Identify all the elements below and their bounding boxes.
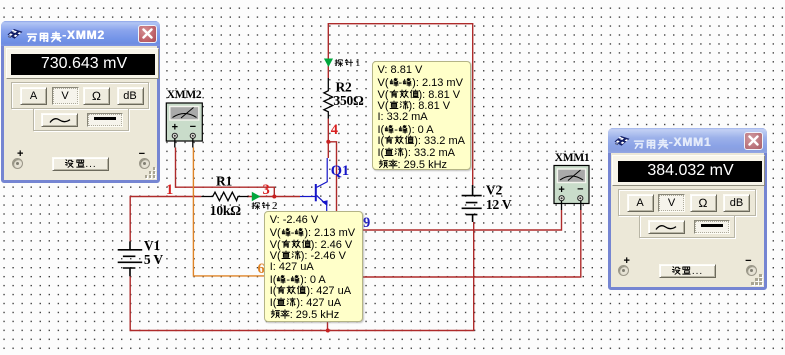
- svg-text:−: −: [190, 121, 196, 133]
- probe tooltip probe1: [372, 61, 471, 170]
- wire: node4 to XMM1 plus (node 9 run): [328, 142, 561, 230]
- svg-text:10kΩ: 10kΩ: [210, 203, 241, 218]
- transistor Q1: [300, 158, 327, 211]
- svg-text:12 V: 12 V: [486, 197, 512, 212]
- wire: node3 to Q1 base: [247, 196, 300, 198]
- svg-text:4: 4: [331, 122, 338, 138]
- svg-text:3: 3: [263, 182, 270, 198]
- resistor R1: [201, 192, 248, 201]
- probe label tan-zhen-2: [251, 200, 278, 213]
- svg-text:5 V: 5 V: [144, 252, 163, 267]
- probe label tan-zhen-1: [334, 57, 361, 70]
- wire: XMM2 plus down to node1 jog to node3: [176, 148, 275, 197]
- svg-text:R1: R1: [216, 174, 233, 189]
- svg-text:1: 1: [166, 182, 173, 198]
- svg-text:V2: V2: [486, 183, 503, 198]
- svg-text:+: +: [558, 184, 564, 196]
- svg-text:XMM2: XMM2: [167, 89, 202, 101]
- probe 2 arrow: [252, 192, 261, 201]
- meter symbol XMM2: [166, 103, 202, 148]
- instrument window XMM2: [1, 21, 160, 183]
- wire: orange XMM2 minus to node6: [193, 148, 300, 276]
- wire: R2 bottom to collector node: [327, 119, 329, 158]
- wire: emitter to bottom rail: [327, 211, 329, 331]
- svg-text:+: +: [172, 122, 178, 134]
- svg-text:Q1: Q1: [331, 163, 349, 179]
- wire: top loop R2 to V2: [328, 24, 472, 185]
- svg-text:350Ω: 350Ω: [333, 93, 364, 108]
- svg-text:−: −: [577, 184, 583, 196]
- resistor R2: [324, 78, 333, 119]
- probe 1 arrow: [324, 59, 333, 68]
- battery V1: [118, 241, 143, 276]
- svg-text:9: 9: [363, 215, 370, 231]
- junction node3: [272, 195, 276, 199]
- battery V2: [462, 185, 482, 222]
- meter symbol XMM1: [554, 166, 589, 211]
- junction node4: [326, 140, 330, 144]
- svg-text:V1: V1: [144, 238, 161, 253]
- wire: left rail through V1 and bottom rail to V2: [130, 197, 474, 331]
- wire: XMM1 minus run: [328, 210, 581, 277]
- instrument window XMM1: [608, 128, 767, 290]
- svg-text:XMM1: XMM1: [555, 152, 590, 164]
- junction bottom rail emitter: [326, 329, 330, 333]
- probe tooltip probe2: [264, 211, 363, 322]
